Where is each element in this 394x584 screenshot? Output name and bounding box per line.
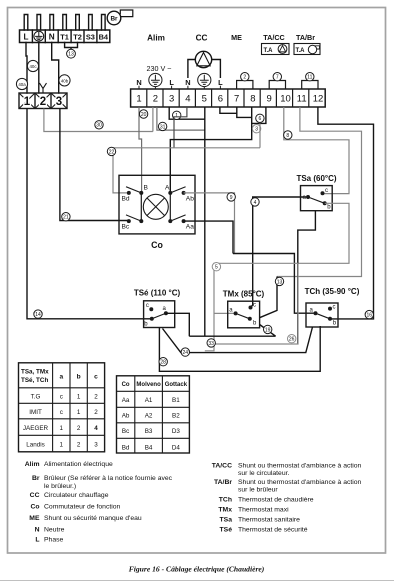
svg-text:24: 24: [183, 350, 189, 356]
svg-text:c: c: [325, 188, 328, 194]
wire 14 terminal block 1 to TSe b: [27, 109, 152, 319]
section labels: [147, 33, 315, 43]
svg-text:TA/Br: TA/Br: [296, 33, 315, 42]
Co lamp symbol: [143, 194, 168, 219]
node 2: [241, 73, 249, 81]
svg-text:Neutre: Neutre: [44, 527, 65, 534]
svg-text:2: 2: [94, 393, 98, 400]
svg-text:Brûleur (Se référer à la notic: Brûleur (Se référer à la notice fournie …: [44, 475, 173, 482]
svg-text:Thermostat sanitaire: Thermostat sanitaire: [238, 517, 300, 524]
gray loop wire 5/26 around TMx: [205, 263, 298, 351]
svg-text:TMx: TMx: [218, 507, 232, 514]
node 24: [181, 348, 189, 356]
svg-text:TSé, TCh: TSé, TCh: [21, 377, 48, 384]
wire 16 terminal 12 to TCh b: [318, 107, 374, 319]
svg-text:TSa: TSa: [220, 517, 233, 524]
svg-text:D3: D3: [172, 428, 181, 435]
svg-text:TA/CC: TA/CC: [263, 33, 284, 42]
wire TSe a to rail: [166, 313, 276, 336]
svg-text:c: c: [60, 393, 63, 400]
svg-text:230 V ~: 230 V ~: [147, 64, 172, 73]
TSe switch arm: [152, 313, 166, 319]
strip X1 cell labels: [23, 16, 118, 42]
svg-text:B: B: [144, 185, 149, 192]
svg-text:2: 2: [77, 441, 81, 448]
TMx pin labels: [229, 303, 257, 327]
svg-text:14: 14: [35, 312, 41, 318]
svg-text:N: N: [35, 527, 40, 534]
shunt bracket terminals 9-10: [269, 81, 285, 90]
T.A/Br shunt box: [294, 44, 320, 55]
svg-text:Bd: Bd: [122, 196, 130, 203]
svg-text:TSa (60°C): TSa (60°C): [296, 174, 336, 183]
wire terminal 5 long rail to TSe/TMx: [204, 107, 206, 336]
svg-text:ME: ME: [29, 515, 40, 522]
Co internal columns: [141, 193, 170, 221]
svg-text:33: 33: [208, 341, 214, 347]
wire 8 terminal 10 to TSa c: [284, 107, 349, 194]
node 33: [207, 339, 215, 347]
wire L to terminal 1 (40a/40c): [26, 43, 27, 94]
node 7: [273, 73, 281, 81]
Co pin labels: [122, 185, 195, 231]
TCh pin labels: [310, 305, 337, 327]
svg-text:TCh (35-90 °C): TCh (35-90 °C): [305, 287, 360, 296]
svg-text:L: L: [23, 32, 28, 41]
Co switch arms: [126, 187, 186, 221]
main terminal strip 1-12: [131, 89, 326, 107]
wire 9 Co Ab branch: [184, 193, 235, 254]
wire Co Aa to TCh a: [184, 221, 314, 313]
svg-text:CC: CC: [30, 492, 40, 499]
svg-text:Figure 16 - Câblage électrique: Figure 16 - Câblage électrique (Chaudièr…: [129, 565, 265, 574]
svg-text:28: 28: [160, 360, 166, 366]
wire 21 terminal block 3 to Co Bc: [60, 109, 129, 221]
svg-text:T.G: T.G: [31, 393, 41, 400]
svg-text:B1: B1: [172, 397, 180, 404]
wire 20 terminal 1 to Co B: [139, 107, 142, 193]
svg-text:5: 5: [202, 94, 207, 105]
svg-text:c: c: [94, 373, 98, 380]
thermostat TMx box: [228, 301, 260, 328]
svg-text:Bd: Bd: [122, 445, 130, 452]
svg-text:N: N: [185, 78, 190, 87]
earth symbol over terminal 2: [149, 73, 162, 89]
svg-text:A2: A2: [145, 413, 153, 420]
svg-text:1: 1: [77, 393, 81, 400]
Co contact dots: [127, 191, 186, 223]
svg-text:9: 9: [230, 195, 233, 201]
svg-text:3: 3: [94, 441, 98, 448]
svg-text:TA/Br: TA/Br: [214, 479, 232, 486]
svg-text:Molveno: Molveno: [136, 382, 161, 388]
svg-text:3: 3: [56, 96, 62, 108]
svg-text:L: L: [218, 78, 223, 87]
node 13: [67, 49, 76, 58]
connector pins above strip X1: [24, 15, 105, 31]
node 28: [159, 358, 167, 366]
node 40a: [16, 78, 27, 89]
svg-text:26: 26: [289, 337, 295, 343]
node 22: [107, 147, 115, 155]
node 6: [256, 114, 264, 122]
svg-text:TSé (110 °C): TSé (110 °C): [134, 289, 181, 298]
shunt bracket terminals 11-12: [302, 81, 318, 90]
svg-text:c: c: [333, 305, 336, 311]
wire shunt terminals 8-9: [252, 107, 266, 123]
svg-text:4: 4: [254, 200, 257, 206]
svg-text:Bc: Bc: [122, 224, 130, 231]
node 3: [252, 125, 260, 133]
TSe contacts: [149, 307, 168, 321]
svg-text:CC: CC: [196, 34, 208, 43]
svg-text:Bc: Bc: [122, 428, 129, 435]
svg-text:40a: 40a: [18, 82, 26, 87]
svg-text:8: 8: [286, 133, 289, 139]
commutator Co box: [119, 175, 195, 234]
svg-text:Co: Co: [30, 504, 39, 511]
svg-text:6: 6: [218, 94, 223, 105]
svg-text:N: N: [49, 32, 55, 41]
svg-text:TSé: TSé: [220, 527, 233, 534]
earth symbol in strip X1 cell 2: [34, 31, 44, 41]
wire 22 safety rail to Co Bd: [113, 123, 260, 192]
svg-text:S3: S3: [86, 32, 95, 41]
svg-text:D4: D4: [172, 445, 181, 452]
thermostat TSa box: [301, 186, 333, 211]
TMx contacts: [234, 306, 253, 321]
svg-text:Ab: Ab: [186, 196, 194, 203]
svg-text:L: L: [35, 537, 39, 544]
svg-text:2: 2: [153, 94, 158, 105]
svg-text:1: 1: [24, 96, 31, 108]
svg-text:Gottack: Gottack: [165, 382, 188, 388]
svg-text:1: 1: [60, 425, 64, 432]
svg-text:TA/CC: TA/CC: [212, 463, 232, 470]
thermostat TSe box: [144, 301, 175, 328]
svg-text:Br: Br: [110, 16, 118, 23]
svg-text:Circulateur chauffage: Circulateur chauffage: [44, 492, 109, 499]
svg-text:T.A: T.A: [296, 48, 306, 54]
svg-text:T2: T2: [73, 32, 82, 41]
thermostat wiring table: [19, 363, 105, 452]
svg-text:40b: 40b: [61, 78, 69, 83]
svg-text:Aa: Aa: [122, 397, 130, 404]
svg-text:A1: A1: [145, 397, 153, 404]
svg-text:A: A: [165, 185, 170, 192]
svg-text:Landis: Landis: [26, 441, 45, 448]
svg-text:B3: B3: [145, 428, 153, 435]
svg-text:2: 2: [77, 425, 81, 432]
svg-text:7: 7: [276, 75, 279, 81]
node 16: [365, 310, 373, 318]
svg-text:Br: Br: [32, 475, 40, 482]
wire N to terminal 3 (40b): [52, 43, 59, 94]
svg-text:ME: ME: [231, 33, 242, 42]
svg-text:2: 2: [243, 75, 246, 81]
svg-text:T1: T1: [60, 32, 69, 41]
node 21: [62, 213, 70, 221]
shunt bracket terminals 7-8: [237, 81, 253, 90]
circulator pump CC: [188, 51, 221, 78]
svg-text:19: 19: [265, 327, 271, 333]
wire TSa common down: [298, 211, 316, 344]
svg-text:12: 12: [313, 94, 324, 105]
svg-text:1: 1: [60, 441, 64, 448]
svg-text:40c: 40c: [29, 64, 37, 69]
svg-text:5: 5: [215, 265, 218, 271]
svg-text:11: 11: [307, 75, 312, 81]
legend left column: [25, 461, 173, 544]
svg-text:Thermostat maxi: Thermostat maxi: [238, 507, 289, 514]
wire 13 bracket under T1-T2: [65, 43, 78, 50]
svg-text:13: 13: [68, 52, 74, 58]
svg-text:21: 21: [63, 215, 69, 221]
TMx switch arm: [236, 313, 250, 318]
svg-text:c: c: [146, 303, 149, 309]
svg-text:Alimentation électrique: Alimentation électrique: [44, 461, 113, 468]
svg-text:b: b: [77, 373, 81, 380]
svg-text:Ab: Ab: [122, 413, 130, 420]
svg-text:le brûleur.): le brûleur.): [44, 483, 76, 490]
svg-text:10: 10: [280, 94, 291, 105]
svg-text:11: 11: [297, 94, 307, 105]
wire terminal 8 to Co A: [170, 107, 251, 193]
node 31: [158, 122, 166, 130]
TSa pin labels: [303, 188, 332, 211]
terminal block 1-2-3: [19, 93, 67, 109]
svg-text:2: 2: [40, 96, 46, 108]
node 13b: [275, 277, 283, 285]
node 8: [284, 131, 292, 139]
svg-text:Shunt ou thermostat d'ambiance: Shunt ou thermostat d'ambiance à action: [238, 463, 362, 470]
commutator reference table: [117, 376, 190, 453]
svg-text:JAEGER: JAEGER: [23, 425, 49, 432]
svg-text:4: 4: [185, 94, 190, 105]
svg-text:Alim: Alim: [147, 34, 165, 43]
svg-text:a: a: [59, 373, 63, 380]
svg-text:13: 13: [277, 279, 283, 285]
svg-text:TCh: TCh: [219, 497, 232, 504]
node 40c: [27, 60, 38, 71]
svg-text:Co: Co: [151, 240, 163, 250]
node 30: [95, 121, 103, 129]
TCh switch arm: [316, 313, 331, 319]
node 1: [173, 111, 181, 119]
svg-text:4: 4: [94, 425, 98, 432]
svg-text:Thermostat de chaudière: Thermostat de chaudière: [238, 497, 314, 504]
svg-text:L: L: [169, 78, 174, 87]
TSa contacts: [306, 191, 327, 205]
wire terminal 4 to safety rail: [174, 107, 187, 148]
thermostat TCh box: [306, 303, 338, 327]
legend right column: [212, 463, 362, 534]
svg-text:1: 1: [175, 113, 178, 119]
svg-text:TSa, TMx: TSa, TMx: [21, 369, 49, 376]
svg-text:31: 31: [160, 124, 166, 130]
wire TSa b wrap to TMx loop: [298, 203, 349, 263]
wire 30 terminal block 2 to terminal 2: [44, 107, 153, 132]
wire 31 terminal 2 to terminal 5 rail: [157, 107, 205, 130]
svg-text:Thermostat de sécurité: Thermostat de sécurité: [238, 527, 308, 534]
svg-text:Alim: Alim: [25, 461, 40, 468]
svg-text:TMx (85°C): TMx (85°C): [223, 290, 265, 299]
ground wire to terminal 2: [38, 43, 40, 94]
svg-text:sur le circulateur.: sur le circulateur.: [238, 470, 289, 477]
svg-text:16: 16: [367, 313, 373, 319]
wire 1 terminal 3 to terminal 5 rail: [169, 107, 205, 119]
svg-text:30: 30: [96, 123, 102, 129]
svg-text:Commutateur de fonction: Commutateur de fonction: [44, 504, 121, 511]
svg-text:sur le brûleur: sur le brûleur: [238, 486, 278, 493]
svg-text:8: 8: [250, 94, 255, 105]
node 11: [306, 73, 314, 81]
svg-text:Co: Co: [122, 382, 130, 388]
node 40b: [59, 75, 70, 86]
wire terminal 11 to TMx b: [277, 107, 362, 277]
earth symbol over terminal 5: [198, 73, 211, 89]
svg-text:7: 7: [234, 94, 239, 105]
node 9: [227, 193, 235, 201]
svg-text:N: N: [136, 78, 141, 87]
svg-text:1: 1: [136, 94, 141, 105]
N and L labels over terminals: [136, 78, 223, 87]
wire TMx b diagonal to rail: [260, 325, 276, 337]
svg-text:1: 1: [77, 409, 81, 416]
svg-text:3: 3: [169, 94, 174, 105]
svg-text:22: 22: [109, 149, 115, 155]
svg-text:T.A: T.A: [264, 48, 274, 54]
wire 4 TSa a to TMx c: [251, 197, 307, 308]
wire 13 drop to TMx b: [260, 277, 277, 318]
TSe pin labels: [144, 303, 166, 328]
burner connector Br: [107, 10, 133, 25]
svg-text:3: 3: [255, 127, 258, 133]
svg-text:Shunt ou thermostat d'ambiance: Shunt ou thermostat d'ambiance à action: [238, 479, 362, 486]
wire 28 TSe bottom to TCh bottom: [159, 326, 320, 371]
terminal numbers 1-12: [136, 94, 323, 105]
node 26: [288, 335, 296, 343]
node 19: [264, 325, 272, 333]
svg-text:B4: B4: [145, 445, 153, 452]
svg-text:2: 2: [94, 409, 98, 416]
footer rule: [0, 580, 394, 582]
terminal strip X1 (L,earth,N,T1,T2,S3,B4): [20, 30, 110, 43]
svg-text:6: 6: [259, 116, 262, 122]
svg-text:B2: B2: [172, 413, 180, 420]
svg-text:c: c: [253, 303, 256, 309]
TCh contacts: [314, 307, 333, 321]
svg-text:B4: B4: [99, 32, 109, 41]
svg-text:Shunt ou sécurité manque d'eau: Shunt ou sécurité manque d'eau: [44, 515, 142, 522]
svg-text:Aa: Aa: [186, 224, 194, 231]
svg-text:20: 20: [141, 112, 147, 118]
terminal block numbers: [24, 96, 62, 108]
T.A/CC shunt box: [262, 44, 290, 55]
svg-text:9: 9: [267, 94, 272, 105]
svg-text:Phase: Phase: [44, 537, 63, 544]
svg-text:c: c: [60, 409, 63, 416]
TSa switch arm: [308, 197, 325, 203]
svg-text:IMIT: IMIT: [29, 409, 42, 416]
earth mark above terminal block cell 2: [40, 84, 46, 93]
node 4: [251, 198, 259, 206]
wire shunt terminals 6-7: [220, 107, 252, 117]
wire 24 TSe bottom to TCh bottom diagonal run: [163, 327, 313, 353]
node 5: [212, 263, 220, 271]
node 20: [139, 110, 147, 118]
tick stubs above terminals 1,3,4,6: [139, 86, 220, 89]
node 14: [34, 310, 42, 318]
